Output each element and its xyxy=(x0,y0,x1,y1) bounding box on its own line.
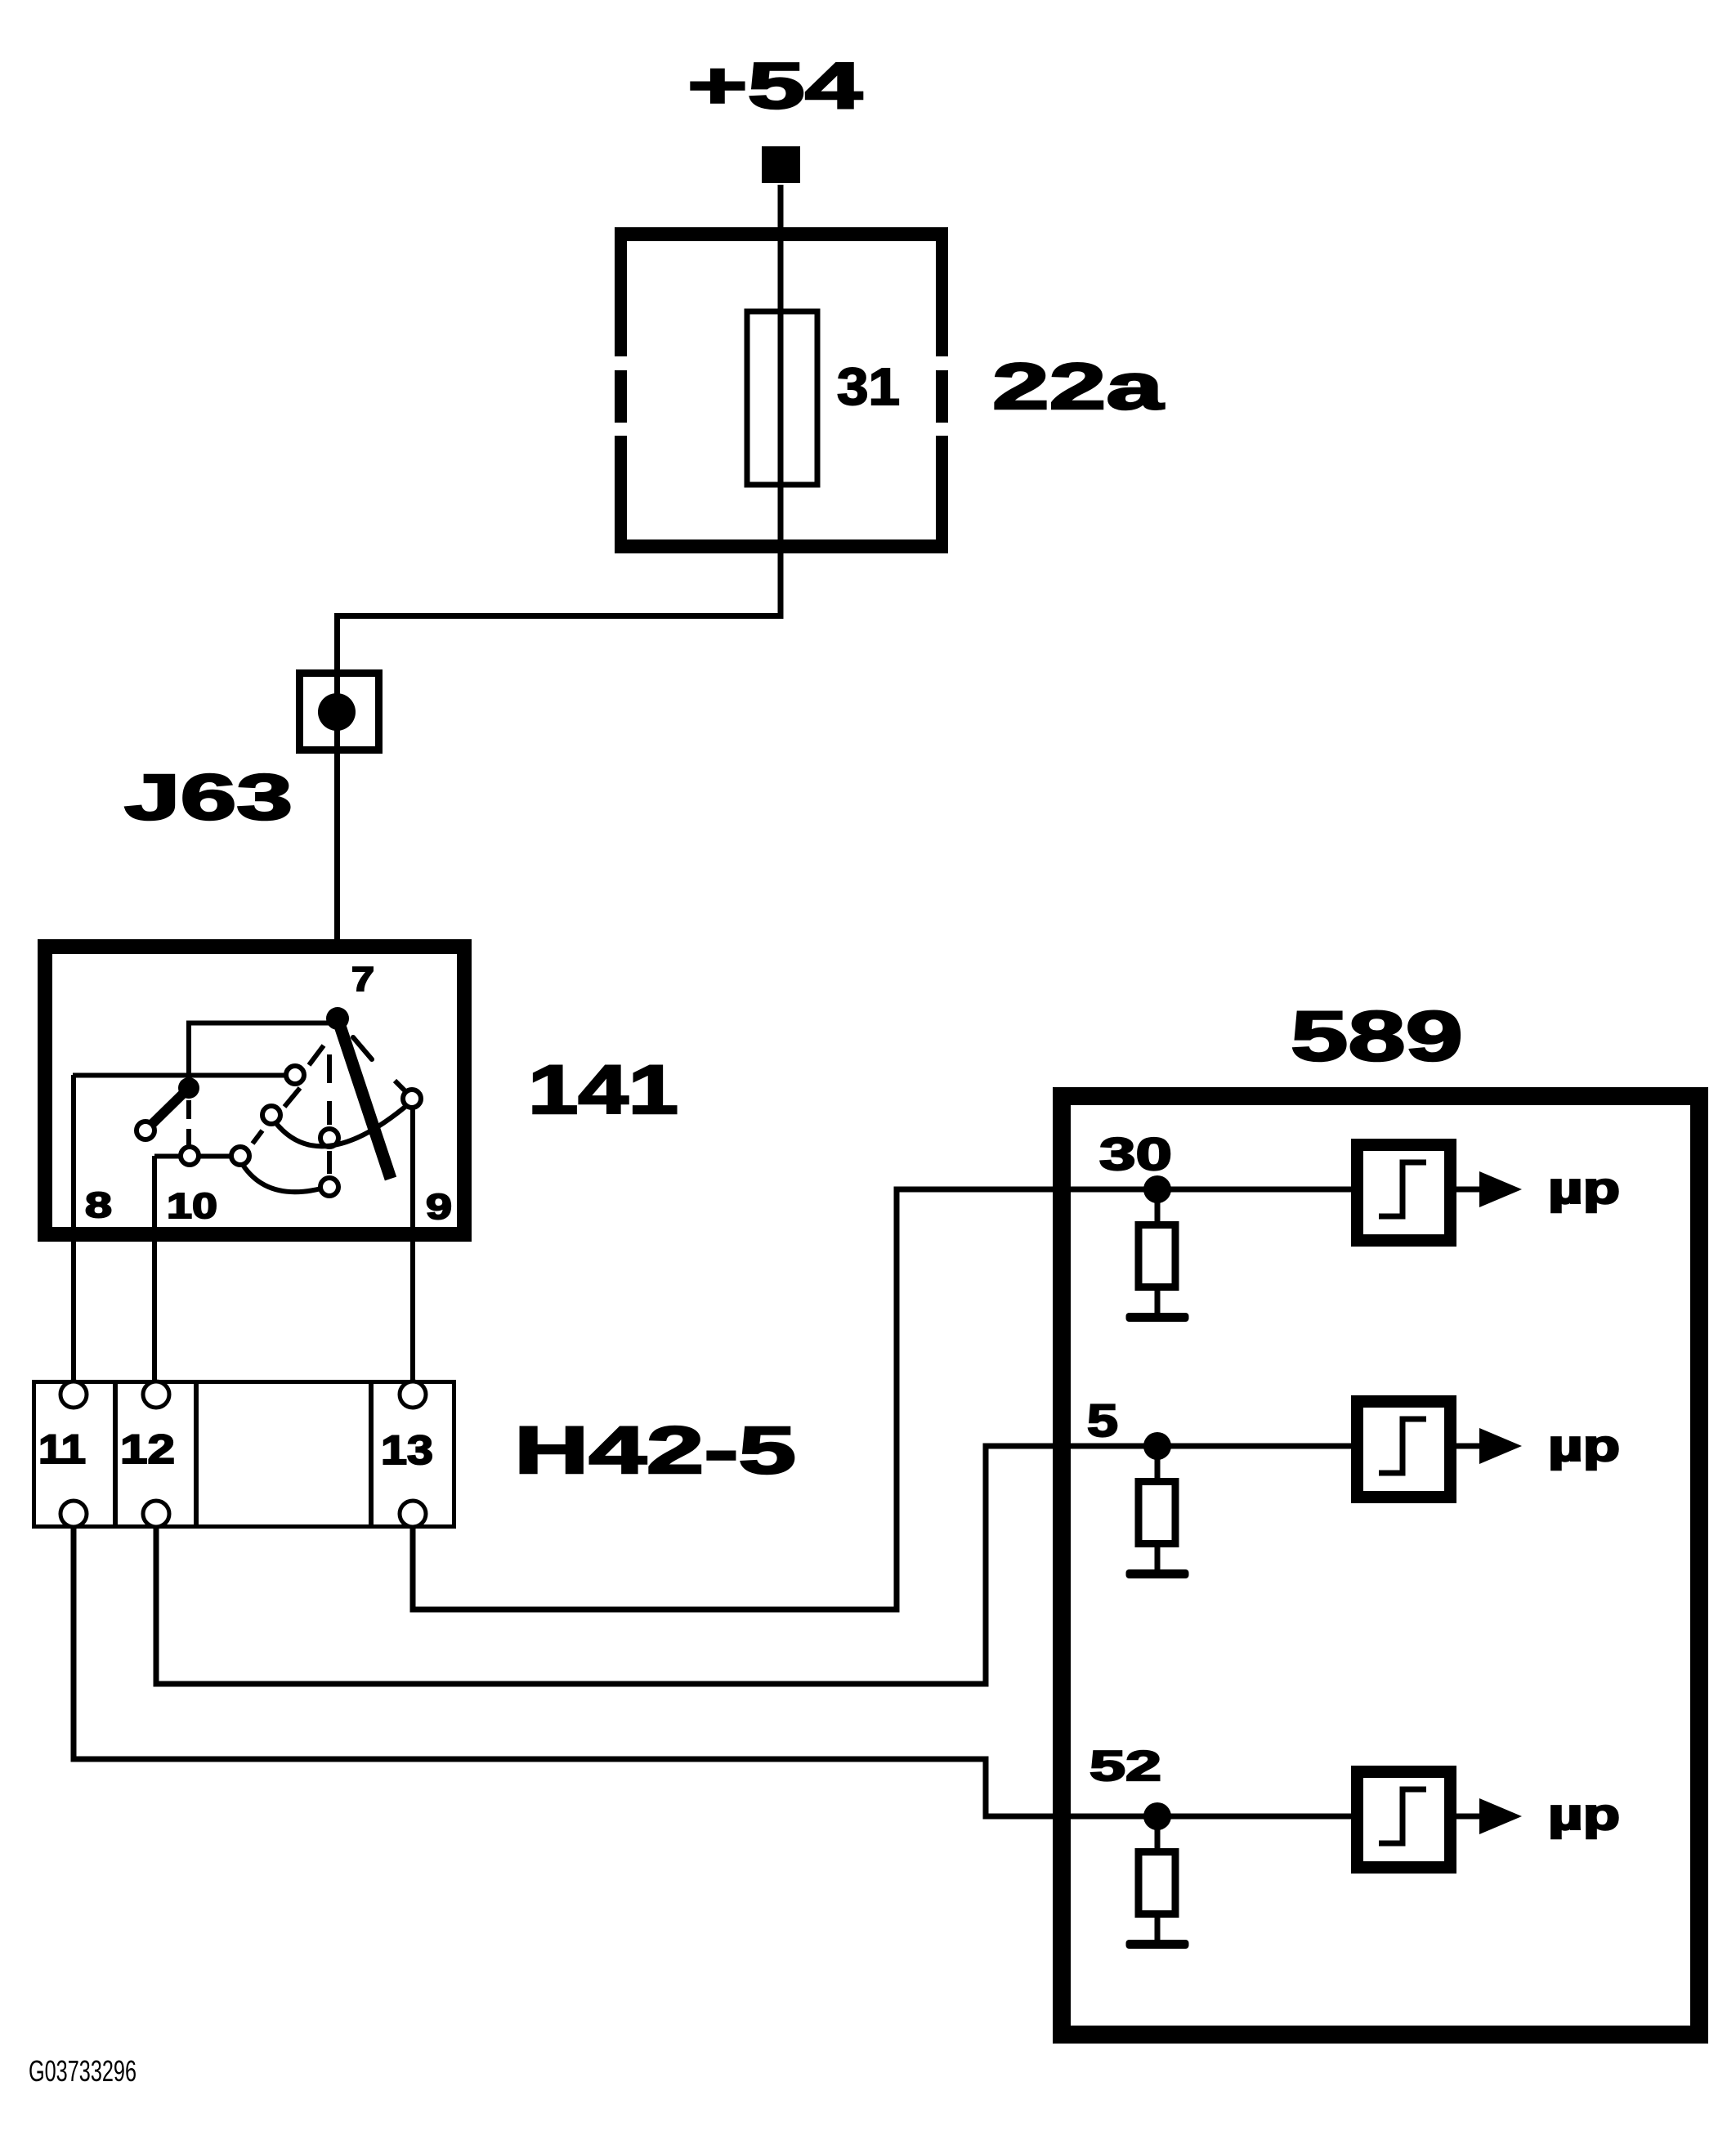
svg-text:22a: 22a xyxy=(992,350,1164,423)
wire connector 12 to control unit pin 5 xyxy=(156,1446,1157,1684)
fuse box 22a left dashed edge xyxy=(615,227,627,356)
small lever xyxy=(150,1088,189,1126)
wire pin 10 to connector 12 xyxy=(152,1156,157,1383)
svg-text:H42-5: H42-5 xyxy=(514,1413,796,1488)
wire node to schmitt trigger U3 xyxy=(1157,1814,1356,1820)
resistor R1 stub xyxy=(1155,1198,1161,1225)
schmitt trigger U3 step symbol xyxy=(1379,1789,1426,1843)
svg-text:9: 9 xyxy=(426,1187,452,1227)
connector divider 2 xyxy=(194,1381,199,1527)
svg-text:12: 12 xyxy=(120,1426,175,1472)
ground R3 bar xyxy=(1126,1940,1189,1949)
svg-text:589: 589 xyxy=(1291,997,1463,1076)
wire pin 8 to connector 11 xyxy=(71,1075,76,1383)
fuse element F 31 xyxy=(747,311,817,485)
switch 141 box xyxy=(45,947,464,1234)
schmitt trigger U1 box xyxy=(1358,1145,1451,1241)
contact circle c3 xyxy=(320,1129,338,1147)
svg-text:µp: µp xyxy=(1548,1164,1620,1213)
schmitt trigger U3 box xyxy=(1358,1772,1451,1868)
schmitt trigger U1 step symbol xyxy=(1379,1162,1426,1216)
contact circle c4 xyxy=(403,1090,421,1108)
svg-text:J63: J63 xyxy=(124,760,293,833)
ground R2 bar xyxy=(1126,1569,1189,1578)
wire connector 11 to control unit pin 52 xyxy=(74,1527,1157,1816)
svg-text:µp: µp xyxy=(1548,1790,1620,1839)
node 5 junction dot xyxy=(1143,1432,1171,1460)
connector H42-5 body xyxy=(34,1382,454,1527)
wire node to schmitt trigger U1 xyxy=(1157,1187,1356,1193)
svg-text:10: 10 xyxy=(167,1186,217,1226)
node 52 junction dot xyxy=(1143,1802,1171,1830)
resistor R2 stub xyxy=(1155,1454,1161,1482)
pin 7 pivot dot xyxy=(326,1007,349,1030)
wire horizontal from fuse bottom to left xyxy=(338,616,781,940)
contact circle c1 xyxy=(286,1066,304,1084)
contact arc c7-c8 xyxy=(243,1165,321,1192)
resistor R1 lower stub xyxy=(1155,1287,1161,1314)
svg-text:31: 31 xyxy=(837,357,900,416)
arrow U1 to microprocessor xyxy=(1456,1187,1483,1193)
tail of contact c4 xyxy=(395,1081,407,1093)
svg-text:30: 30 xyxy=(1099,1128,1172,1180)
resistor R2 lower stub xyxy=(1155,1544,1161,1571)
svg-text:µp: µp xyxy=(1548,1421,1620,1471)
resistor R3 stub xyxy=(1155,1824,1161,1852)
svg-text:+54: +54 xyxy=(687,49,863,122)
small lever pivot dot xyxy=(178,1077,199,1099)
contact circle c7 xyxy=(231,1147,249,1165)
connector divider 1 xyxy=(113,1381,118,1527)
contact circle c6 xyxy=(181,1147,199,1165)
ground R1 bar xyxy=(1126,1313,1189,1322)
svg-text:8: 8 xyxy=(85,1185,112,1225)
tail of contact c2 xyxy=(284,1088,300,1107)
svg-text:7: 7 xyxy=(351,960,374,998)
contact circle c2 xyxy=(262,1106,280,1124)
wire from +54 terminal down through fuse 22a xyxy=(778,185,784,619)
schmitt trigger U2 step symbol xyxy=(1379,1419,1426,1473)
connector pin circles bottom xyxy=(60,1501,87,1527)
lever actuation arrow xyxy=(353,1037,372,1059)
wire pin 8 horizontal xyxy=(73,1073,287,1078)
node 30 junction dot xyxy=(1143,1175,1171,1203)
tail dash of contact c7 xyxy=(253,1130,262,1144)
contact circle c8 xyxy=(320,1178,338,1196)
wire at contact row y1416 xyxy=(154,1154,231,1159)
dashed vertical pivot to c3 to c8 xyxy=(327,1054,332,1174)
resistor R1 xyxy=(1139,1225,1175,1287)
dashed line small pivot to contact 10 xyxy=(186,1100,191,1145)
resistor R2 xyxy=(1139,1482,1175,1544)
fuse box 22a right dashed edge xyxy=(936,227,948,356)
svg-text:G03733296: G03733296 xyxy=(29,2054,136,2088)
wire pin 9 to connector 13 xyxy=(410,1108,415,1383)
connector pin circles top xyxy=(60,1381,87,1408)
dash pivot to c1 xyxy=(309,1045,324,1065)
control unit 589 box xyxy=(1062,1096,1699,2035)
junction connector J63 box xyxy=(300,674,379,750)
arrow U2 to microprocessor xyxy=(1456,1444,1483,1449)
wire pivot to left inside switch xyxy=(189,1023,331,1089)
svg-text:52: 52 xyxy=(1089,1743,1161,1790)
svg-text:141: 141 xyxy=(528,1051,678,1128)
wire node to schmitt trigger U2 xyxy=(1157,1444,1356,1449)
resistor R3 lower stub xyxy=(1155,1914,1161,1941)
contact arc c2-c3-c4 xyxy=(275,1106,406,1146)
resistor R3 xyxy=(1139,1852,1175,1914)
fuse box 22a bottom edge xyxy=(615,539,948,553)
terminal +54 square xyxy=(762,146,800,183)
svg-text:5: 5 xyxy=(1087,1395,1118,1446)
schmitt trigger U2 box xyxy=(1358,1402,1451,1498)
svg-text:11: 11 xyxy=(38,1426,86,1472)
svg-text:13: 13 xyxy=(381,1427,433,1473)
connector divider 3 xyxy=(369,1381,374,1527)
junction J63 dot xyxy=(318,693,356,731)
fuse box 22a top edge xyxy=(615,227,948,241)
wire connector 13 to control unit pin 30 xyxy=(413,1189,1157,1609)
switch lever xyxy=(338,1019,391,1179)
arrow U3 to microprocessor xyxy=(1456,1814,1483,1820)
contact circle c5 xyxy=(136,1121,154,1139)
